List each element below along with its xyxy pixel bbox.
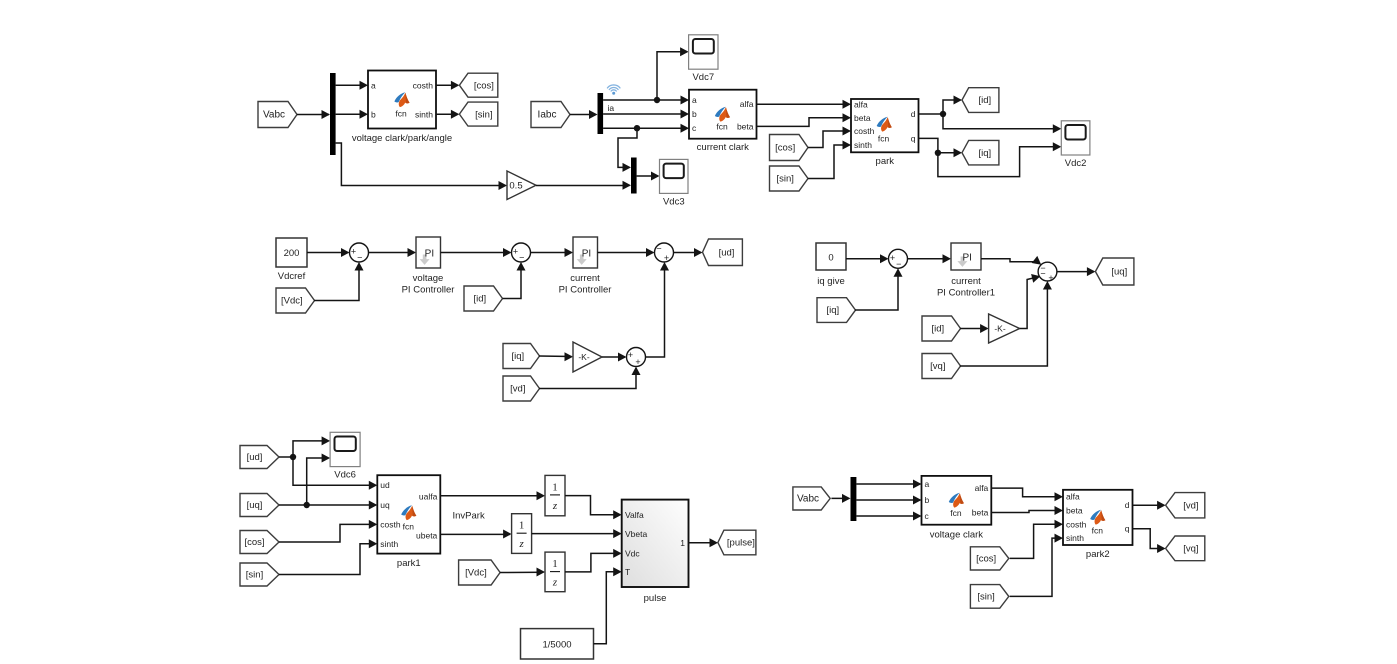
svg-text:[Vdc]: [Vdc] [465, 568, 487, 579]
svg-text:b: b [692, 109, 697, 119]
svg-text:−: − [896, 259, 901, 269]
svg-text:beta: beta [1066, 506, 1083, 516]
svg-text:PI: PI [425, 249, 434, 260]
svg-text:+: + [628, 350, 633, 360]
svg-text:[iq]: [iq] [978, 148, 991, 159]
svg-text:[vd]: [vd] [1183, 500, 1198, 511]
svg-text:+: + [513, 247, 518, 257]
svg-text:1: 1 [680, 538, 685, 548]
svg-text:PI: PI [582, 249, 591, 260]
svg-text:uq: uq [380, 500, 390, 510]
svg-text:+: + [351, 247, 356, 257]
svg-text:Iabc: Iabc [538, 110, 557, 121]
svg-text:fcn: fcn [950, 508, 962, 518]
svg-text:park2: park2 [1086, 549, 1110, 560]
svg-text:q: q [911, 133, 916, 143]
svg-text:PI Controller1: PI Controller1 [937, 288, 995, 299]
svg-text:[iq]: [iq] [826, 305, 839, 316]
svg-text:z: z [518, 538, 524, 550]
svg-text:PI: PI [962, 253, 971, 264]
svg-text:sinth: sinth [854, 140, 872, 150]
svg-text:Vdcref: Vdcref [278, 271, 306, 282]
svg-text:park1: park1 [397, 558, 421, 569]
svg-text:ubeta: ubeta [416, 530, 438, 540]
svg-text:costh: costh [1066, 519, 1087, 529]
svg-text:ualfa: ualfa [419, 491, 438, 501]
svg-text:b: b [925, 495, 930, 505]
svg-text:+: + [1048, 273, 1053, 283]
svg-text:Vabc: Vabc [263, 110, 285, 121]
svg-text:Vdc7: Vdc7 [692, 72, 714, 83]
svg-text:voltage: voltage [413, 273, 444, 284]
svg-text:costh: costh [380, 519, 401, 529]
svg-text:[iq]: [iq] [511, 351, 524, 362]
svg-text:−: − [656, 244, 661, 254]
svg-text:Vbeta: Vbeta [625, 529, 647, 539]
svg-text:[uq]: [uq] [247, 500, 263, 511]
svg-text:1: 1 [552, 558, 558, 570]
svg-text:alfa: alfa [854, 99, 868, 109]
svg-text:fcn: fcn [395, 109, 407, 119]
svg-text:iq give: iq give [817, 276, 844, 287]
svg-text:[vq]: [vq] [1183, 544, 1198, 555]
svg-text:z: z [552, 577, 558, 589]
svg-text:[sin]: [sin] [977, 592, 994, 603]
svg-text:current clark: current clark [697, 142, 750, 153]
svg-text:current: current [570, 273, 600, 284]
svg-text:−: − [519, 253, 524, 263]
svg-text:T: T [625, 567, 630, 577]
svg-text:1/5000: 1/5000 [542, 640, 571, 651]
svg-text:[sin]: [sin] [475, 109, 492, 120]
svg-text:0.5: 0.5 [509, 180, 522, 191]
svg-text:[sin]: [sin] [246, 570, 263, 581]
svg-text:current: current [951, 276, 981, 287]
svg-text:fcn: fcn [1092, 526, 1104, 536]
svg-text:[id]: [id] [473, 294, 486, 305]
svg-text:a: a [692, 95, 697, 105]
svg-text:-K-: -K- [578, 352, 590, 362]
svg-text:[id]: [id] [931, 324, 944, 335]
svg-text:+: + [890, 253, 895, 263]
svg-text:fcn: fcn [878, 134, 890, 144]
svg-text:sinth: sinth [1066, 533, 1084, 543]
svg-text:q: q [1125, 524, 1130, 534]
svg-text:fcn: fcn [403, 522, 415, 532]
svg-text:Vdc: Vdc [625, 549, 640, 559]
svg-text:−: − [357, 253, 362, 263]
svg-text:fcn: fcn [716, 122, 728, 132]
svg-text:pulse: pulse [644, 593, 667, 604]
svg-text:d: d [1125, 500, 1130, 510]
svg-text:[Vdc]: [Vdc] [281, 296, 303, 307]
svg-text:a: a [925, 479, 930, 489]
svg-text:[ud]: [ud] [247, 452, 263, 463]
svg-text:alfa: alfa [975, 483, 989, 493]
svg-text:z: z [552, 500, 558, 512]
svg-text:b: b [371, 109, 376, 119]
svg-text:[id]: [id] [978, 95, 991, 106]
svg-text:a: a [371, 80, 376, 90]
svg-text:+: + [635, 357, 640, 367]
svg-text:Valfa: Valfa [625, 510, 644, 520]
svg-text:PI Controller: PI Controller [402, 285, 455, 296]
svg-text:[cos]: [cos] [775, 143, 795, 154]
svg-text:Vdc3: Vdc3 [663, 196, 685, 207]
svg-text:0: 0 [828, 253, 833, 264]
svg-text:Vdc6: Vdc6 [334, 470, 356, 481]
svg-text:d: d [911, 109, 916, 119]
svg-text:-K-: -K- [994, 324, 1006, 334]
svg-text:[uq]: [uq] [1111, 267, 1127, 278]
svg-text:alfa: alfa [740, 99, 754, 109]
svg-text:Vdc2: Vdc2 [1065, 158, 1087, 169]
svg-text:voltage clark: voltage clark [930, 530, 984, 541]
svg-text:costh: costh [413, 80, 434, 90]
svg-text:PI Controller: PI Controller [559, 285, 612, 296]
svg-text:voltage clark/park/angle: voltage clark/park/angle [352, 133, 452, 144]
svg-text:alfa: alfa [1066, 492, 1080, 502]
svg-text:[cos]: [cos] [474, 80, 494, 91]
svg-text:park: park [876, 156, 895, 167]
svg-text:[pulse]: [pulse] [727, 538, 755, 549]
svg-text:ia: ia [608, 103, 615, 113]
svg-text:Vabc: Vabc [797, 494, 819, 505]
svg-text:[cos]: [cos] [244, 537, 264, 548]
svg-text:beta: beta [972, 508, 989, 518]
svg-text:sinth: sinth [415, 109, 433, 119]
svg-text:1: 1 [552, 481, 558, 493]
svg-text:[cos]: [cos] [976, 554, 996, 565]
svg-text:−: − [1040, 269, 1045, 279]
svg-text:200: 200 [284, 248, 300, 259]
svg-text:sinth: sinth [380, 539, 398, 549]
svg-text:[vd]: [vd] [510, 384, 525, 395]
svg-text:1: 1 [519, 520, 525, 532]
svg-text:ud: ud [380, 480, 390, 490]
svg-text:[ud]: [ud] [719, 247, 735, 258]
svg-text:costh: costh [854, 126, 875, 136]
svg-text:[vq]: [vq] [930, 361, 945, 372]
svg-text:beta: beta [854, 113, 871, 123]
svg-text:beta: beta [737, 121, 754, 131]
svg-text:+: + [664, 253, 669, 263]
svg-text:[sin]: [sin] [776, 174, 793, 185]
svg-text:InvPark: InvPark [453, 511, 485, 522]
